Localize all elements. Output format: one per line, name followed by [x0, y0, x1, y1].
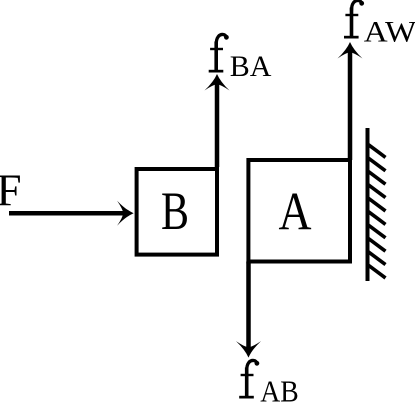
wall hatching — [368, 144, 386, 278]
svg-text:AW: AW — [364, 16, 415, 49]
force F arrow — [9, 211, 124, 216]
wall — [366, 128, 370, 281]
block B — [137, 169, 217, 255]
svg-text:BA: BA — [230, 50, 272, 83]
block A — [248, 160, 350, 262]
svg-text:B: B — [161, 181, 189, 241]
svg-text:F: F — [0, 166, 22, 216]
svg-text:A: A — [279, 182, 312, 242]
label f_BA — [209, 34, 229, 72]
label f_AW — [344, 0, 364, 38]
force f_AW arrow — [348, 52, 353, 160]
svg-text:AB: AB — [260, 374, 299, 406]
force f_AB arrow — [246, 262, 251, 349]
label f_AB — [239, 360, 259, 398]
force f_BA arrow — [215, 84, 220, 167]
